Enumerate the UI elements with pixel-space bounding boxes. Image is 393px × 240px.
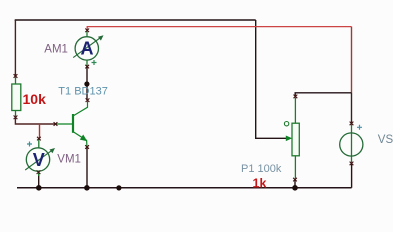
collector lead [74, 101, 88, 116]
resistor R 10k body [12, 77, 21, 117]
svg-text:P1 100k: P1 100k [241, 163, 282, 175]
wire pot bottom to ground rail [294, 180, 296, 188]
base bar [72, 114, 74, 133]
pin x mark ammeter bottom [85, 65, 89, 69]
pin x mark pot top [294, 95, 298, 99]
wire dark vertical pot-top node to VS plus [351, 93, 353, 124]
emitter arrowhead [80, 135, 87, 142]
svg-text:T1 BD137: T1 BD137 [58, 86, 108, 98]
pin x mark base [54, 122, 58, 126]
pin x mark VS bottom [350, 162, 354, 166]
svg-text:AM1: AM1 [44, 43, 68, 55]
wire emitter down to ground rail [86, 147, 88, 188]
pin x mark emitter [85, 145, 89, 149]
wire red right vertical down to pot-top node [351, 27, 353, 93]
voltage source VS [340, 124, 363, 163]
emitter lead [74, 132, 87, 146]
svg-text:10k: 10k [23, 91, 47, 107]
wire black pot-top horizontal [295, 93, 351, 97]
node junction dot emitter on rail [84, 185, 90, 191]
ammeter AM1 [73, 31, 103, 66]
svg-text:1k: 1k [253, 176, 267, 190]
transistor Q1 (T1 BD137) [56, 101, 88, 146]
plus mark [92, 60, 97, 65]
wire red tap to voltmeter [39, 124, 41, 139]
wiper terminal circle [284, 122, 288, 126]
pin x mark voltmeter top [37, 137, 41, 141]
wire top black rail from left corner to right vertical [15, 20, 255, 21]
wire ammeter bottom to transistor collector [86, 67, 88, 101]
pin x mark resistor top [14, 74, 18, 78]
wire left vertical to resistor [14, 20, 16, 76]
pin x mark ammeter top [85, 29, 89, 33]
pin x mark resistor bottom [14, 116, 18, 120]
wiper arrowhead [286, 136, 292, 142]
plus mark [357, 125, 362, 130]
svg-text:V: V [33, 150, 45, 170]
wire red top from ammeter to right side [87, 27, 351, 31]
pin x mark pot bottom [293, 178, 297, 182]
wire bottom ground rail [17, 187, 352, 189]
wire voltmeter bottom to ground rail [38, 172, 40, 188]
meter arrow [73, 37, 102, 58]
voltmeter VM1 [25, 139, 55, 176]
pin x mark collector [86, 98, 90, 102]
wire black vertical to pot wiper [256, 20, 289, 138]
potentiometer P1 [284, 98, 299, 179]
meter arrow [25, 149, 53, 170]
base lead [56, 123, 72, 125]
svg-text:VS: VS [378, 134, 393, 146]
wire VS bottom to ground rail [351, 164, 353, 188]
svg-text:A: A [81, 38, 94, 58]
node junction dot mid rail [116, 185, 121, 190]
node junction dot ammeter-collector [84, 81, 89, 86]
node junction dot pot on rail [292, 185, 298, 191]
plus mark [27, 142, 32, 147]
pin x mark voltmeter bottom [37, 170, 41, 174]
svg-text:VM1: VM1 [57, 153, 81, 165]
wire maroon resistor bottom to transistor base [15, 118, 55, 125]
pin x mark VS top [350, 122, 354, 126]
node junction dot voltmeter on rail [36, 185, 42, 191]
